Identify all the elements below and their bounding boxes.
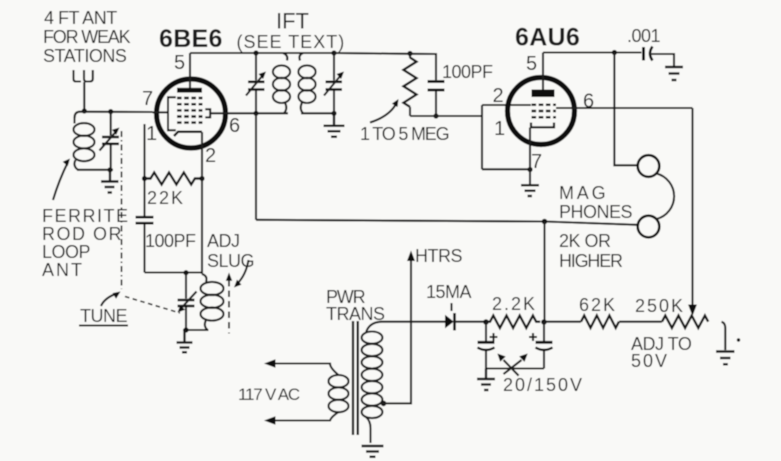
resistor 1 TO 5 MEG: [404, 54, 417, 117]
wire: 6BE6 pin7 lead inside: [153, 111, 169, 113]
svg-text:6: 6: [229, 115, 240, 137]
svg-text:117 V AC: 117 V AC: [238, 385, 300, 404]
6BE6 cathode: [174, 132, 202, 136]
svg-text:FERRITE: FERRITE: [42, 206, 130, 226]
node: antenna junction: [82, 108, 87, 113]
svg-text:5: 5: [526, 53, 537, 75]
arrow: meg pointer: [370, 99, 399, 123]
svg-text:2K OR: 2K OR: [559, 231, 611, 251]
wire: B+ vertical from phones junction: [543, 222, 545, 322]
svg-text:6BE6: 6BE6: [159, 25, 223, 53]
node: tuning cap top junction: [108, 109, 113, 114]
label: TUNE: [79, 306, 128, 326]
node: phones feed junction: [542, 219, 548, 225]
inductor T1 secondary: [362, 322, 383, 443]
wire: phones arc: [657, 174, 675, 220]
svg-text:IFT: IFT: [276, 9, 309, 34]
phone jack bottom: [638, 216, 660, 238]
adjustable slug dashed line with arrow: [226, 273, 232, 334]
ground: .001: [665, 67, 683, 80]
node: cathode junction: [527, 167, 532, 172]
node: osc cap bottom junction: [183, 327, 188, 332]
inductor T1 primary: [267, 364, 349, 421]
wire: antenna tank top: [75, 112, 153, 118]
svg-text:1: 1: [146, 123, 157, 145]
inductor IFT secondary: [298, 53, 315, 113]
transformer T1 core: [353, 321, 358, 435]
svg-text:7: 7: [531, 151, 542, 173]
node: tank bottom junction: [107, 167, 112, 172]
node: center tap: [381, 401, 387, 407]
svg-text:PHONES: PHONES: [559, 202, 633, 222]
wire: feedback vertical from IFT: [255, 113, 257, 220]
svg-text:TRANS: TRANS: [326, 304, 385, 324]
wire: B+ line from secondary: [381, 321, 445, 323]
arrow: 117VAC top: [264, 359, 276, 367]
diode rectifier: [445, 303, 455, 331]
6BE6 grids (dashed rows): [177, 98, 203, 123]
wire: 250K to ground: [722, 322, 726, 350]
label: ADJ TO 50V: [631, 334, 692, 371]
svg-text:6: 6: [583, 91, 594, 113]
svg-text:MAG: MAG: [559, 183, 608, 203]
ground: 6AU6 cathode: [521, 185, 539, 196]
node: filter cap 1 junction: [483, 319, 489, 325]
svg-text:.001: .001: [627, 26, 661, 46]
svg-text:15MA: 15MA: [426, 282, 472, 302]
arrow: HTRS: [407, 251, 415, 262]
ground: antenna tank: [101, 170, 119, 193]
node: 22K right junction: [199, 176, 204, 181]
ground: 250K: [716, 352, 735, 365]
inductor L1 ferrite rod coil: [74, 117, 95, 170]
inductor osc coil: [201, 274, 224, 330]
label: FERRITE ROD OR LOOP ANT: [42, 206, 130, 280]
svg-text:20/150V: 20/150V: [503, 375, 584, 395]
node: IFT left top junction: [253, 50, 258, 55]
svg-text:2.2K: 2.2K: [492, 294, 537, 314]
wire: 6AU6 pin7 cathode lead: [529, 128, 531, 185]
6AU6 grids: [532, 105, 557, 118]
svg-text:2: 2: [205, 145, 216, 167]
svg-text:100PF: 100PF: [145, 231, 196, 251]
wire: grid line to 6AU6: [410, 115, 482, 117]
wire: 6BE6 pin2 line down: [201, 132, 203, 274]
svg-text:TUNE: TUNE: [80, 306, 127, 326]
arrow: tune pointer: [101, 292, 121, 307]
svg-text:LOOP: LOOP: [42, 242, 91, 262]
wire: IFT right tank bottom: [301, 112, 334, 114]
svg-text:4 FT ANT: 4 FT ANT: [44, 8, 117, 28]
resistor 62K: [581, 316, 619, 328]
wire: 6AU6 input block: [482, 105, 531, 169]
svg-text:1: 1: [494, 118, 505, 140]
label: IFT (SEE TEXT): [237, 9, 346, 53]
wire: top line to 100PF: [334, 53, 436, 80]
inductor IFT primary: [273, 53, 290, 113]
capacitor electrolytic C+ left 20/150V: [478, 322, 498, 369]
phone jack top: [638, 155, 660, 177]
wire: osc tank bottom: [183, 329, 209, 331]
capacitor 100PF grid: [428, 82, 445, 117]
wire: filter caps bottom: [486, 367, 544, 369]
wire: tune mechanical link (dash-dot): [121, 131, 123, 289]
svg-text:6AU6: 6AU6: [515, 24, 580, 52]
svg-text:(SEE TEXT): (SEE TEXT): [237, 32, 346, 52]
node: 100PF bottom junction: [433, 113, 438, 118]
svg-text:7: 7: [142, 88, 153, 110]
6BE6 left grid bracket: [168, 97, 176, 130]
arrow: 117VAC bottom: [264, 416, 276, 424]
antenna symbol: [74, 70, 93, 110]
potentiometer 250K: [662, 316, 708, 328]
ground: filter: [477, 369, 495, 391]
node: meg resistor top junction: [407, 51, 412, 56]
wire: phones vertical drop: [614, 53, 637, 166]
variable capacitor C osc tuning: [178, 273, 197, 330]
arrow: slug pointer: [234, 260, 249, 288]
node: 22K left junction: [142, 176, 147, 181]
capacitor 100PF osc series: [136, 217, 154, 272]
resistor 2.2K: [486, 316, 540, 328]
wire: antenna tank bottom: [77, 169, 113, 171]
tube 6AU6 envelope: [508, 78, 575, 145]
variable capacitor C1 antenna tuning: [100, 112, 120, 170]
wire: diode to filter: [455, 321, 490, 323]
wire: to 62K: [544, 321, 581, 323]
wire: 6AU6 pin5 plate lead: [542, 53, 544, 91]
svg-text:ROD OR: ROD OR: [42, 224, 123, 244]
wire: center tap to heater riser: [380, 257, 411, 403]
capacitor .001: [644, 47, 675, 67]
arrow: pot wiper: [688, 305, 697, 317]
wire: feedback long horizontal to phones: [256, 220, 638, 225]
svg-text:2: 2: [493, 85, 504, 107]
ground: transformer secondary: [362, 446, 384, 457]
wire: to 250K: [619, 321, 662, 323]
label: MAG PHONES 2K OR HIGHER: [559, 183, 633, 271]
tube 6BE6 envelope: [157, 79, 226, 148]
6AU6 cathode: [531, 123, 554, 128]
svg-text:250K: 250K: [635, 296, 685, 316]
variable capacitor IFT right trimmer: [324, 72, 344, 114]
label: ADJ SLUG: [207, 231, 254, 271]
svg-text:22K: 22K: [147, 188, 185, 208]
wire: plate line down to pot wiper: [691, 108, 693, 305]
svg-text:100PF: 100PF: [442, 62, 493, 82]
node: osc cap top junction: [183, 270, 188, 275]
ground: osc tank: [177, 330, 193, 352]
stray mark: [737, 338, 740, 341]
wire: IFT left tank bottom + 6BE6 pin6 lead: [210, 112, 288, 114]
wire: tune link diagonal dashed: [125, 297, 180, 314]
svg-text:62K: 62K: [579, 295, 617, 315]
svg-text:HIGHER: HIGHER: [559, 251, 623, 271]
svg-text:ANT: ANT: [42, 260, 84, 280]
wire: 6BE6 pin5 plate lead: [189, 53, 191, 89]
label: PWR TRANS: [326, 287, 385, 324]
wire: IFT left vertical: [255, 53, 257, 80]
ground: IFT: [324, 113, 345, 136]
resistor 22K: [145, 173, 202, 185]
svg-text:FOR WEAK: FOR WEAK: [43, 27, 131, 47]
wire: top line 6AU6 to .001: [543, 51, 642, 53]
6BE6 plate bar: [177, 88, 202, 93]
arrow: ferrite label pointer: [53, 159, 70, 201]
wire: IFT right vertical: [333, 53, 335, 80]
6BE6 right bracket (pin6 connection): [205, 109, 210, 117]
arrow: 20/150V right pointer: [504, 354, 528, 375]
label: 4 FT ANT FOR WEAK STATIONS: [43, 8, 131, 66]
wire: top line 6BE6 pin5 to IFT: [190, 52, 334, 54]
arrow: 20/150V left pointer: [497, 354, 518, 376]
node: IFT right bottom junction: [331, 111, 336, 116]
node: feedback takeoff junction: [253, 111, 258, 116]
wire: pin1 line down: [143, 124, 145, 216]
6AU6 plate bar: [532, 90, 555, 98]
svg-text:50V: 50V: [631, 351, 669, 371]
wire: 6AU6 pin6 plate lead out: [556, 107, 693, 109]
svg-text:1 TO 5 MEG: 1 TO 5 MEG: [360, 124, 449, 144]
svg-text:5: 5: [174, 52, 185, 74]
variable capacitor IFT left trimmer: [246, 72, 266, 114]
wire: osc tank top: [145, 271, 203, 273]
svg-text:HTRS: HTRS: [415, 246, 462, 266]
node: filter cap 2 junction: [541, 319, 547, 325]
svg-text:ADJ: ADJ: [207, 231, 240, 251]
node: IFT right top junction: [331, 50, 336, 55]
capacitor electrolytic C+ right 20/150V: [529, 322, 553, 369]
node: phones top junction: [612, 50, 617, 55]
svg-text:STATIONS: STATIONS: [43, 46, 127, 66]
